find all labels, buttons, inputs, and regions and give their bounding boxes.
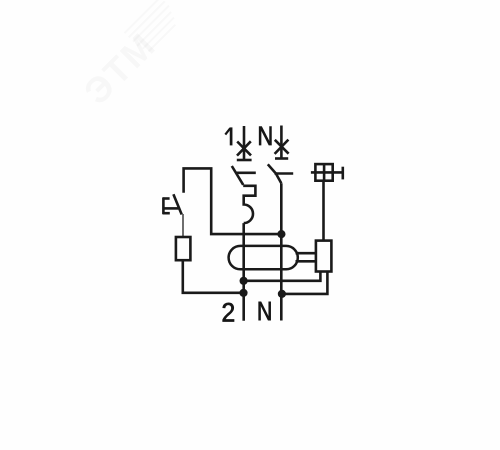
wire resistor to phase conductor bbox=[183, 260, 244, 293]
breaker contact pole N bbox=[268, 164, 293, 183]
thermal overload element bbox=[243, 186, 255, 223]
wire relay to phase conductor bbox=[244, 272, 321, 281]
terminal label 2 bbox=[223, 303, 234, 322]
junction phase and resistor wire bbox=[239, 289, 247, 297]
watermark (decorative) bbox=[75, 0, 190, 112]
terminal label N bottom bbox=[259, 302, 271, 320]
resistor (test) bbox=[176, 237, 191, 260]
test button bbox=[311, 164, 343, 181]
svg-text:ЭТМ: ЭТМ bbox=[76, 24, 164, 112]
CT output linkage bbox=[296, 253, 316, 261]
breaker contact pole 1 bbox=[232, 166, 256, 185]
current transformer toroid bbox=[229, 246, 298, 269]
terminal N clamp bbox=[275, 126, 289, 159]
terminal 1 clamp bbox=[237, 126, 252, 160]
wire test button to relay bbox=[322, 181, 325, 241]
wire trip linkage to N bbox=[184, 168, 282, 234]
manual actuator bbox=[163, 194, 182, 214]
wire relay to neutral conductor bbox=[282, 272, 328, 294]
wire actuator to test resistor bbox=[182, 214, 184, 237]
junction neutral and relay wire bbox=[278, 290, 286, 298]
wire N conductor bbox=[280, 183, 283, 320]
wire phase conductor bbox=[242, 223, 245, 321]
junction phase and relay wire bbox=[240, 277, 248, 285]
trip relay bbox=[316, 241, 332, 272]
terminal label N bbox=[259, 127, 271, 145]
terminal label 1 bbox=[225, 127, 231, 145]
junction N and trip linkage bbox=[277, 230, 285, 238]
